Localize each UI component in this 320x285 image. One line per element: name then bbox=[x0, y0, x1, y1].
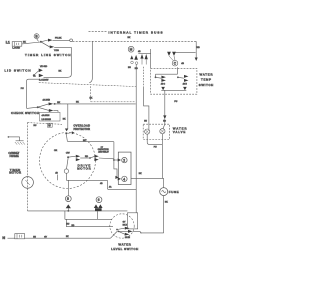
terminal circle 2 bbox=[122, 157, 127, 162]
water level switch box bbox=[127, 213, 137, 229]
wire 4B row to water temp box bbox=[138, 49, 151, 68]
wire motor bottom run bbox=[66, 180, 136, 189]
node N bbox=[2, 236, 5, 240]
svg-text:4A: 4A bbox=[109, 186, 112, 189]
label TIMER LINE SWITCH bbox=[25, 53, 71, 57]
svg-text:GY: GY bbox=[123, 221, 126, 223]
water level switch dashed circle bbox=[110, 214, 134, 238]
label WATER TEMP SWITCH bbox=[199, 72, 213, 86]
svg-text:PU: PU bbox=[21, 88, 24, 90]
svg-text:4B C: 4B C bbox=[161, 84, 166, 86]
motor start winding tap bbox=[64, 158, 68, 180]
dashed feed to water valve left bbox=[144, 67, 149, 129]
capacitor note bbox=[98, 147, 110, 154]
label CABINET FRAME bbox=[8, 151, 19, 158]
svg-text:PROTECTOR: PROTECTOR bbox=[74, 128, 91, 131]
terminal B circle bbox=[34, 34, 39, 42]
drive motor dashed circle bbox=[40, 133, 96, 189]
wire buss corner down at x92 bbox=[89, 41, 92, 83]
water valve solenoid 1 bbox=[145, 129, 150, 134]
svg-text:4B: 4B bbox=[100, 183, 103, 185]
motor internal switch SW4 bbox=[66, 152, 114, 161]
svg-text:WATER: WATER bbox=[200, 72, 213, 76]
dashed timer outline left bbox=[28, 86, 91, 211]
svg-text:TEMP: TEMP bbox=[201, 78, 211, 82]
svg-text:BU: BU bbox=[128, 67, 131, 69]
motor terminal circle 5 bbox=[65, 180, 71, 212]
M terminal cluster on buss bbox=[128, 46, 138, 70]
svg-text:4: 4 bbox=[123, 177, 125, 181]
svg-text:C: C bbox=[174, 62, 177, 66]
C terminal cluster bbox=[167, 52, 196, 66]
svg-text:2: 2 bbox=[123, 159, 125, 163]
svg-text:1-2 LIDSW: 1-2 LIDSW bbox=[39, 79, 48, 81]
water temp switch contacts bbox=[155, 67, 189, 90]
overload protector OL1 bbox=[65, 104, 90, 142]
svg-text:FUSE: FUSE bbox=[169, 190, 179, 194]
ground to cabinet frame bbox=[8, 136, 25, 145]
svg-text:BK: BK bbox=[139, 173, 142, 175]
label TIMER MOTOR bbox=[9, 168, 21, 175]
wire terminal 4 to fuse bbox=[131, 177, 164, 179]
fuse F1 bbox=[160, 178, 179, 233]
wire bottom run from timer motor bbox=[28, 210, 128, 212]
svg-text:W: W bbox=[48, 123, 51, 127]
svg-text:5: 5 bbox=[67, 197, 69, 201]
svg-text:CW: CW bbox=[66, 152, 71, 154]
label CHECK SWITCH bbox=[11, 111, 39, 115]
label WATER LEVEL SWITCH bbox=[111, 242, 138, 251]
boxed label 4A BRN bbox=[34, 112, 67, 127]
label VIO RD bbox=[40, 66, 62, 72]
svg-text:6: 6 bbox=[98, 198, 100, 202]
svg-text:RD: RD bbox=[135, 68, 138, 70]
wire vertical to lid switch line bbox=[44, 47, 72, 77]
svg-text:CHECK SWITCH: CHECK SWITCH bbox=[11, 111, 39, 115]
svg-text:BK: BK bbox=[66, 236, 69, 238]
svg-text:BK H: BK H bbox=[123, 225, 128, 227]
svg-text:4A: 4A bbox=[33, 75, 36, 78]
svg-text:FRAME: FRAME bbox=[10, 154, 19, 158]
svg-text:INTERNAL TIMER BUSS: INTERNAL TIMER BUSS bbox=[109, 30, 163, 34]
svg-text:LID SWITCH: LID SWITCH bbox=[5, 68, 31, 72]
svg-text:BK: BK bbox=[76, 102, 79, 104]
buss right corner drop bbox=[181, 41, 200, 65]
svg-text:PU: PU bbox=[174, 101, 177, 103]
motor terminal circle 6 bbox=[94, 183, 103, 220]
svg-text:4B: 4B bbox=[138, 51, 141, 53]
wire water temp to valve right bbox=[163, 90, 178, 119]
svg-text:BK: BK bbox=[63, 119, 66, 121]
svg-text:AND RELAY: AND RELAY bbox=[98, 150, 109, 153]
svg-text:4A BRN: 4A BRN bbox=[42, 114, 50, 117]
svg-text:VIO RD: VIO RD bbox=[40, 66, 48, 68]
neutral plug P2 bbox=[15, 234, 25, 239]
wire lower runs to water level switch bbox=[65, 211, 113, 227]
wire L1 to timer line switch bbox=[22, 42, 41, 44]
svg-text:Y-DB: Y-DB bbox=[54, 50, 59, 52]
wire motor top feed bbox=[68, 140, 114, 142]
svg-text:MOTOR: MOTOR bbox=[9, 171, 21, 175]
svg-text:NB: NB bbox=[197, 47, 201, 49]
svg-text:BU: BU bbox=[67, 223, 70, 225]
svg-text:N: N bbox=[2, 236, 5, 240]
svg-text:PU-BK: PU-BK bbox=[55, 37, 62, 39]
svg-text:PU: PU bbox=[154, 146, 157, 148]
wire main vertical to water level switch bbox=[136, 64, 142, 212]
wire into terminal 4 bbox=[114, 160, 121, 181]
wire check switch output bbox=[53, 98, 136, 104]
label WATER VALVE bbox=[173, 127, 187, 135]
dashed timer line y104 region bbox=[91, 101, 136, 103]
terminal circle 4 bbox=[122, 176, 127, 181]
svg-text:TIMER LINE SWITCH: TIMER LINE SWITCH bbox=[25, 53, 71, 57]
svg-text:BU: BU bbox=[34, 125, 37, 127]
svg-text:OR: OR bbox=[54, 150, 58, 152]
svg-text:LEVEL SWITCH: LEVEL SWITCH bbox=[111, 247, 138, 251]
label DRIVE MOTOR bbox=[77, 163, 90, 170]
line cord plug P1 bbox=[12, 42, 22, 50]
svg-text:BK: BK bbox=[90, 98, 93, 100]
dashed timer line y86 bbox=[39, 83, 137, 87]
svg-text:4A BRN: 4A BRN bbox=[43, 99, 51, 102]
svg-text:4B: 4B bbox=[55, 173, 58, 175]
neutral wire N run bbox=[8, 232, 118, 239]
wire lid switch left leg bbox=[21, 79, 40, 108]
motor aux tap bbox=[54, 150, 58, 180]
svg-text:MOTOR: MOTOR bbox=[77, 167, 90, 171]
water temp switch dashed box bbox=[151, 68, 197, 94]
svg-text:BU: BU bbox=[144, 120, 147, 122]
wire valve output to fuse line bbox=[147, 134, 162, 179]
motor terminal box bbox=[118, 152, 131, 184]
water level switch contacts bbox=[116, 221, 133, 239]
node L1 bbox=[6, 41, 10, 45]
svg-text:LB BRNS: LB BRNS bbox=[42, 119, 52, 121]
timer motor TM1 bbox=[22, 177, 34, 189]
wire lower contact to vertical bbox=[54, 46, 71, 48]
svg-text:WATER: WATER bbox=[118, 242, 130, 246]
svg-text:BK: BK bbox=[165, 201, 168, 203]
wire into terminal 2 bbox=[113, 142, 121, 162]
check switch SW3 bbox=[27, 99, 61, 113]
label LID SWITCH bbox=[5, 68, 31, 72]
svg-text:4B: 4B bbox=[181, 63, 184, 65]
svg-text:1N 2N: 1N 2N bbox=[125, 237, 131, 239]
svg-text:BK: BK bbox=[128, 37, 131, 39]
svg-text:SWITCH: SWITCH bbox=[199, 83, 213, 87]
internal timer buss (dashed) bbox=[73, 32, 197, 42]
lid switch SW2 bbox=[33, 69, 49, 82]
svg-text:4B H: 4B H bbox=[183, 84, 188, 86]
water valve solenoid 2 bbox=[160, 119, 165, 134]
label INTERNAL TIMER BUSS bbox=[109, 30, 163, 39]
open terminal circle on buss bbox=[70, 39, 73, 42]
svg-text:M: M bbox=[130, 48, 133, 52]
wire fuse bottom to water level switch bbox=[140, 232, 164, 234]
svg-text:VALVE: VALVE bbox=[173, 130, 186, 134]
timer line switch SW1 bbox=[40, 37, 62, 51]
wire upper contact to terminal circle bbox=[53, 39, 70, 41]
svg-text:L.CORD: L.CORD bbox=[12, 48, 20, 50]
svg-text:BK: BK bbox=[59, 70, 62, 72]
svg-text:RD: RD bbox=[85, 156, 89, 158]
svg-text:L1: L1 bbox=[6, 41, 10, 45]
water valve dashed box bbox=[143, 120, 169, 139]
wire water level switch to fuse bbox=[133, 231, 142, 233]
